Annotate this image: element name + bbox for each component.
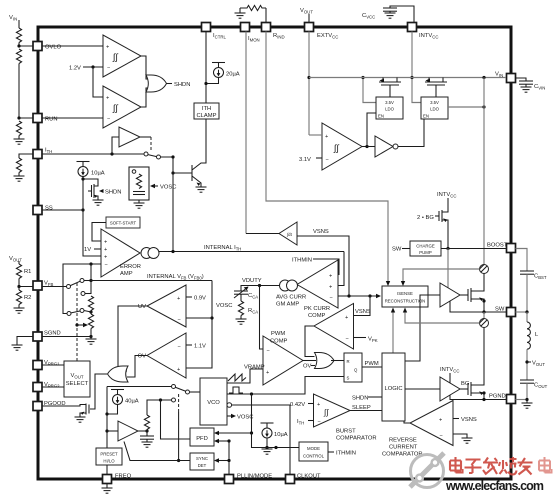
svg-text:OV: OV (138, 354, 147, 360)
pin EXTVCC (305, 23, 339, 40)
wire SGND external (17, 337, 33, 346)
wire isense to logic (392, 311, 394, 354)
wire IMON sense line (245, 32, 247, 234)
wire clamp to transistor (192, 119, 206, 170)
wire L to VOUT node (526, 349, 528, 380)
svg-text:LDO: LDO (430, 107, 439, 112)
svg-text:CONTROL: CONTROL (303, 454, 325, 459)
wire soft-start to error amp (92, 223, 106, 242)
wire ITH internal to INTERNAL ITH line (161, 157, 174, 252)
comparator RUN (103, 86, 141, 128)
wire OVLO comp output to OR (141, 56, 148, 79)
svg-text:FREQ: FREQ (115, 474, 132, 480)
wire boost rail to top driver (447, 249, 449, 289)
block PFD (190, 428, 214, 446)
svg-text:−: − (330, 295, 333, 301)
ground ladder (86, 339, 97, 344)
svg-text:1.2V: 1.2V (69, 66, 81, 72)
svg-text:−: − (326, 157, 329, 163)
wire PGOOD pin (42, 405, 86, 407)
current source 10uA mode (261, 423, 274, 438)
svg-text:PFD: PFD (196, 436, 208, 442)
svg-text:SHDN: SHDN (105, 190, 121, 196)
transistor LDO pass PMOS 1 (379, 78, 401, 98)
wire 1.2V to comparators (83, 66, 103, 68)
svg-text:ICTRL: ICTRL (213, 33, 226, 40)
wire charge pump to BOOST (441, 248, 506, 250)
wire VDUTY node (260, 285, 280, 287)
svg-text:0.42V: 0.42V (290, 402, 305, 408)
wire LDO2 output to VIN line (448, 106, 484, 108)
svg-text:−: − (107, 117, 110, 123)
node divider RUN tap (17, 116, 20, 119)
wire INTERNAL ITH (159, 251, 344, 253)
svg-text:−: − (178, 317, 181, 323)
svg-text:INTVCC: INTVCC (437, 192, 456, 199)
wire SS to error amp (83, 210, 101, 256)
svg-text:+: + (266, 370, 269, 376)
svg-text:S: S (347, 376, 350, 381)
wire SGND net (42, 336, 91, 338)
svg-text:VSNS: VSNS (355, 309, 371, 315)
svg-text:www.elecfans.com: www.elecfans.com (445, 479, 544, 493)
latch RS PWM (344, 353, 362, 382)
pin VFB (33, 281, 53, 291)
wire reverse comp output to logic (404, 421, 410, 423)
op-amp integrator IMON (246, 233, 279, 235)
wire VPRG2 (42, 386, 64, 388)
svg-text:RIND: RIND (273, 33, 285, 40)
resistor divider middle (16, 49, 21, 64)
watermark text chinese (vector strokes) (450, 457, 533, 475)
svg-text:R: R (347, 359, 350, 364)
resistor RIND external (240, 5, 266, 10)
driver TG (440, 283, 460, 307)
wire RUN comp output to OR (141, 88, 148, 107)
svg-text:RECONSTRUCTION: RECONSTRUCTION (385, 299, 426, 304)
wire PWM comp to OR (303, 360, 316, 362)
wire SHDN label (166, 83, 172, 85)
wire VCO input (190, 391, 201, 393)
svg-text:INTVCC: INTVCC (440, 367, 459, 374)
comparator burst (314, 394, 351, 427)
svg-text:DET: DET (198, 463, 207, 468)
wire 10uA to SS (82, 177, 84, 211)
resistor ladder upper (88, 296, 93, 311)
wire VFB error amp negative input (63, 264, 101, 314)
svg-text:COMPARATOR: COMPARATOR (336, 436, 377, 442)
switch ITH (144, 152, 148, 156)
svg-text:PWM: PWM (365, 361, 379, 367)
svg-text:ERROR: ERROR (120, 264, 141, 270)
svg-text:0.9V: 0.9V (194, 296, 206, 302)
svg-text:INTVCC: INTVCC (419, 33, 438, 40)
svg-text:VOUT: VOUT (300, 8, 313, 15)
svg-text:COMP: COMP (270, 339, 288, 345)
svg-text:3.5V: 3.5V (430, 100, 439, 105)
svg-text:PGND: PGND (489, 394, 506, 400)
svg-text:VOSC: VOSC (237, 415, 253, 421)
ground ITH external (18, 173, 20, 177)
pin IMON (241, 23, 260, 43)
svg-text:CURRENT: CURRENT (389, 445, 418, 451)
node ICTRL junction (204, 82, 207, 85)
wire VSNS main line (338, 295, 378, 297)
resistor ladder lower (88, 314, 93, 329)
svg-text:BOOST: BOOST (487, 243, 508, 249)
block charge pump (410, 241, 441, 256)
svg-text:LDO: LDO (385, 107, 394, 112)
wire preset vertical net (106, 387, 108, 449)
wire preset top rail (107, 386, 172, 388)
wire 20uA into ICTRL net (206, 78, 219, 84)
wire INTERNAL VFB (91, 280, 212, 282)
watermark logo circle (410, 453, 444, 488)
wire R1 to VFB (19, 279, 33, 287)
comparator EXTVCC 3.1V (322, 123, 362, 170)
svg-text:VCO: VCO (207, 400, 220, 406)
wire divider to OVLO (19, 43, 33, 47)
svg-text:EXTVCC: EXTVCC (317, 33, 338, 40)
svg-text:SYNC: SYNC (196, 456, 208, 461)
svg-text:−: − (346, 337, 349, 343)
resistor RCA (240, 294, 242, 301)
wire Q1 base (173, 172, 192, 174)
glyph clock pulse (229, 387, 243, 393)
svg-text:PUMP: PUMP (419, 250, 432, 255)
svg-text:RUN: RUN (45, 117, 58, 123)
resistor ITH external (16, 158, 21, 173)
wire LDO1 top tie (363, 78, 376, 103)
comparator PWM (263, 336, 303, 385)
wire PGND node (450, 395, 506, 400)
svg-text:−: − (318, 419, 321, 425)
ground RCA (240, 316, 242, 320)
svg-text:∫∫: ∫∫ (323, 408, 329, 417)
wire UV output to PGOOD gate (118, 306, 147, 371)
svg-text:EN: EN (378, 114, 384, 119)
wire OV output to PGOOD gate (127, 356, 147, 378)
pin RIND (262, 23, 285, 40)
wire PGOOD OR output to pulldown (90, 374, 107, 409)
switch VFB lower (67, 312, 71, 316)
svg-text:ITH: ITH (202, 106, 211, 112)
sense element top (480, 265, 489, 274)
pin BOOST (487, 243, 516, 253)
wire EXTVCC down (308, 32, 310, 136)
wire SHDN gate label (88, 190, 92, 192)
svg-text:UV: UV (138, 304, 146, 310)
svg-text:REVERSE: REVERSE (389, 438, 417, 444)
wire ITH external (19, 154, 33, 158)
pin ICTRL (202, 23, 227, 40)
svg-text:+: + (345, 315, 348, 321)
svg-text:CCA: CCA (248, 293, 258, 300)
gm output avg amp (280, 280, 291, 291)
node divider OVLO tap (17, 44, 20, 47)
buffer preset amp (107, 430, 118, 432)
block LDO1 3.5V (376, 97, 403, 119)
svg-text:ITHMIN: ITHMIN (336, 451, 356, 457)
pin CLKOUT (286, 474, 321, 484)
svg-text:COUT: COUT (534, 383, 548, 390)
wire 40uA to preset net (107, 405, 118, 415)
ground Q1 (196, 187, 207, 192)
wire VSNS to integrator (297, 236, 349, 296)
resistor divider upper (16, 28, 21, 43)
svg-text:VSNS: VSNS (313, 229, 329, 235)
svg-text:10µA: 10µA (274, 432, 288, 438)
svg-text:GM AMP: GM AMP (276, 302, 299, 308)
pin SS (33, 206, 53, 215)
pin VPRG1 (33, 360, 60, 370)
svg-text:INTERNAL VFB (VFB0): INTERNAL VFB (VFB0) (147, 274, 204, 281)
capacitor CBST (516, 249, 528, 272)
svg-text:AVG CURR: AVG CURR (276, 295, 306, 301)
svg-text:∫dt: ∫dt (286, 232, 293, 237)
inverter EN2 (367, 146, 375, 148)
wire divider to RUN (19, 64, 33, 119)
svg-text:+: + (317, 402, 320, 408)
resistor preset RC (144, 415, 149, 430)
svg-text:VDUTY: VDUTY (242, 278, 262, 284)
svg-text:BG: BG (461, 381, 470, 387)
ground SS NMOS (93, 200, 104, 205)
svg-text:LOGIC: LOGIC (384, 386, 402, 392)
block VOSC timing network (129, 167, 149, 200)
resistor divider lower (16, 121, 21, 136)
wire sense top to isense reconstruction (403, 269, 480, 283)
comparator UV (147, 285, 186, 327)
svg-text:PWM: PWM (271, 331, 285, 337)
transistor 2xBG NMOS (442, 206, 448, 212)
transistor Q1 clamp NPN (191, 165, 193, 181)
svg-text:−: − (105, 263, 108, 269)
svg-text:+: + (329, 285, 332, 291)
wire internal VFB node (84, 280, 91, 282)
svg-text:SW: SW (392, 247, 402, 253)
pin INTVCC (408, 23, 439, 40)
wire clock to latch S (252, 377, 345, 395)
wire buffer to sync select (124, 442, 190, 461)
capacitor CCA variable (241, 286, 260, 292)
svg-text:CHARGE: CHARGE (416, 244, 435, 249)
ground CVCC (385, 13, 396, 18)
inductor L (516, 311, 528, 313)
svg-text:PLLIN/MODE: PLLIN/MODE (237, 474, 272, 480)
wire preset to FREQ pin (106, 465, 108, 475)
op-amp U1 error amp (101, 229, 140, 277)
gate OR PWM reset (315, 353, 335, 369)
svg-text:ISENSE: ISENSE (397, 291, 413, 296)
wire ladder top tap (81, 292, 85, 296)
node ladder mid (84, 311, 91, 313)
gate OR shutdown (146, 75, 167, 92)
svg-text:VPK: VPK (368, 337, 378, 344)
svg-text:−: − (178, 344, 181, 350)
svg-text:OVLO: OVLO (45, 45, 62, 51)
wire BG driver from logic (405, 388, 440, 390)
block VCO (200, 378, 227, 425)
svg-text:IMON: IMON (248, 36, 260, 43)
svg-text:+: + (106, 45, 109, 51)
svg-text:VIN: VIN (9, 15, 17, 22)
svg-text:R2: R2 (24, 295, 31, 301)
wire burst sleep to logic (350, 410, 382, 412)
block mode control (299, 442, 328, 461)
svg-text:+: + (439, 418, 442, 424)
transistor SS shutdown NMOS (83, 179, 98, 186)
wire VSNS to PK comp (354, 296, 370, 316)
svg-text:EN: EN (423, 114, 429, 119)
comparator reverse current (410, 401, 453, 446)
svg-text:+: + (106, 96, 109, 102)
svg-text:−: − (267, 348, 270, 354)
svg-text:ITHMIN: ITHMIN (292, 258, 312, 264)
block LDO2 3.5V (421, 97, 448, 119)
svg-text:+: + (104, 247, 107, 253)
svg-text:1V: 1V (84, 247, 91, 253)
svg-text:OV: OV (303, 364, 312, 370)
svg-text:PRESET: PRESET (100, 452, 118, 457)
svg-text:VRAMP: VRAMP (244, 365, 265, 371)
svg-text:+: + (104, 240, 107, 246)
wire VIN divider top (18, 20, 20, 28)
gm output error amp (141, 248, 152, 259)
svg-text:HI/LO: HI/LO (103, 459, 115, 464)
wire latch Q to logic (362, 366, 382, 368)
wire VPK ref (354, 337, 367, 339)
svg-text:SHDN: SHDN (352, 396, 368, 402)
capacitor COUT (520, 380, 534, 383)
svg-text:VOSC: VOSC (160, 185, 176, 191)
block ITH CLAMP (194, 103, 219, 119)
gate OR PGOOD (points left) (108, 366, 129, 382)
wire VIN internal line (483, 78, 485, 265)
switch VFB upper (67, 285, 71, 289)
capacitor CVIN (516, 78, 527, 81)
svg-text:3.1V: 3.1V (299, 157, 311, 163)
block PRESET HI/LO (96, 448, 122, 465)
wire mode net to PFD (161, 400, 191, 439)
wire mode control line (252, 433, 300, 448)
svg-text:−: − (440, 433, 443, 439)
resistor R1 (16, 264, 21, 279)
IC boundary (38, 27, 511, 479)
wire ICTRL to clamp (205, 32, 207, 104)
wire PLLIN to PFD and SYNC (228, 441, 230, 475)
wire VSNS to reverse comp (453, 418, 459, 420)
wire VOSC output (227, 415, 231, 417)
block SOFT-START (106, 217, 140, 228)
op-amp U2 average current amp (297, 260, 338, 308)
transistor top gate NMOS (460, 294, 468, 296)
svg-text:BURST: BURST (336, 429, 356, 435)
ground PGOOD NMOS (75, 417, 86, 422)
current source 40uA (111, 390, 124, 405)
wire INTVCC down (412, 32, 421, 103)
svg-text:SS: SS (45, 206, 53, 212)
wire sense bottom to isense reconstruction (405, 311, 480, 323)
wire VOUT select control dashed (76, 283, 78, 361)
ground reverse comp (453, 434, 467, 438)
sense element bottom (483, 312, 485, 319)
wire VOSC label (150, 184, 155, 188)
current source 20uA (212, 63, 225, 78)
pin VPRG2 (33, 382, 60, 392)
ground RIND external (235, 13, 246, 18)
wire SW node (450, 301, 506, 312)
svg-text:MODE: MODE (307, 446, 320, 451)
svg-text:INTERNAL ITH: INTERNAL ITH (204, 245, 241, 252)
block VOUT SELECT (64, 361, 90, 397)
svg-text:ITH: ITH (297, 419, 304, 426)
pin SGND (33, 331, 61, 342)
transistor PGOOD pulldown NMOS (85, 404, 87, 415)
pin FREQ (103, 474, 132, 484)
wire EXTVCC to comp plus (309, 134, 322, 136)
svg-text:CVCC: CVCC (362, 13, 375, 20)
svg-text:+: + (104, 255, 107, 261)
ground SGND (12, 345, 23, 350)
wire VFB pin to switch (42, 286, 67, 288)
svg-text:PK CURR: PK CURR (304, 306, 330, 312)
pin VIN (495, 72, 516, 83)
svg-text:CLKOUT: CLKOUT (297, 474, 321, 480)
svg-text:VOUT: VOUT (71, 373, 84, 380)
svg-text:COMP: COMP (308, 313, 326, 319)
svg-text:VOSC: VOSC (216, 303, 232, 309)
transistor bottom gate NMOS (460, 388, 468, 390)
wire LDO rail (309, 77, 506, 79)
wire ITH pin net (42, 153, 144, 155)
ground R2 (18, 305, 20, 309)
block ISENSE RECONSTRUCTION (382, 286, 428, 307)
svg-text:10µA: 10µA (91, 171, 105, 177)
svg-text:40µA: 40µA (125, 399, 139, 405)
svg-text:+: + (325, 134, 328, 140)
pin SW (495, 307, 516, 317)
svg-text:ITH: ITH (45, 148, 52, 155)
wire VCO clock output (227, 393, 252, 395)
wire inverter to EN2 (398, 119, 424, 147)
capacitor preset RC (140, 436, 154, 439)
wire VDUTY to PWM comp (260, 286, 264, 350)
svg-text:SOFT-START: SOFT-START (110, 221, 137, 226)
svg-text:20µA: 20µA (226, 72, 240, 78)
ground divider (18, 136, 20, 140)
svg-text:R1: R1 (24, 269, 31, 275)
wire comp output to EN1 (362, 146, 367, 148)
wire SHDN into logic (368, 396, 382, 398)
svg-text:−: − (107, 66, 110, 72)
wire preset RC to mode net (147, 400, 172, 415)
svg-text:SLEEP: SLEEP (352, 405, 371, 411)
pin PGOOD (33, 401, 66, 411)
svg-text:CVIN: CVIN (534, 84, 545, 91)
wire VCO ramp output (227, 369, 263, 383)
switch mode select (172, 385, 176, 389)
buffer ITH amp (112, 137, 119, 154)
wire VPRG1 (42, 364, 64, 366)
resistor R2 (18, 287, 20, 291)
wire RIND sense line (266, 32, 388, 284)
wire internal ITH into avg amp (338, 252, 344, 286)
svg-text:SGND: SGND (44, 331, 61, 337)
comparator OVLO (103, 35, 141, 77)
transistor LDO pass PMOS 2 (425, 78, 447, 98)
wire logic to TG driver (405, 295, 440, 361)
